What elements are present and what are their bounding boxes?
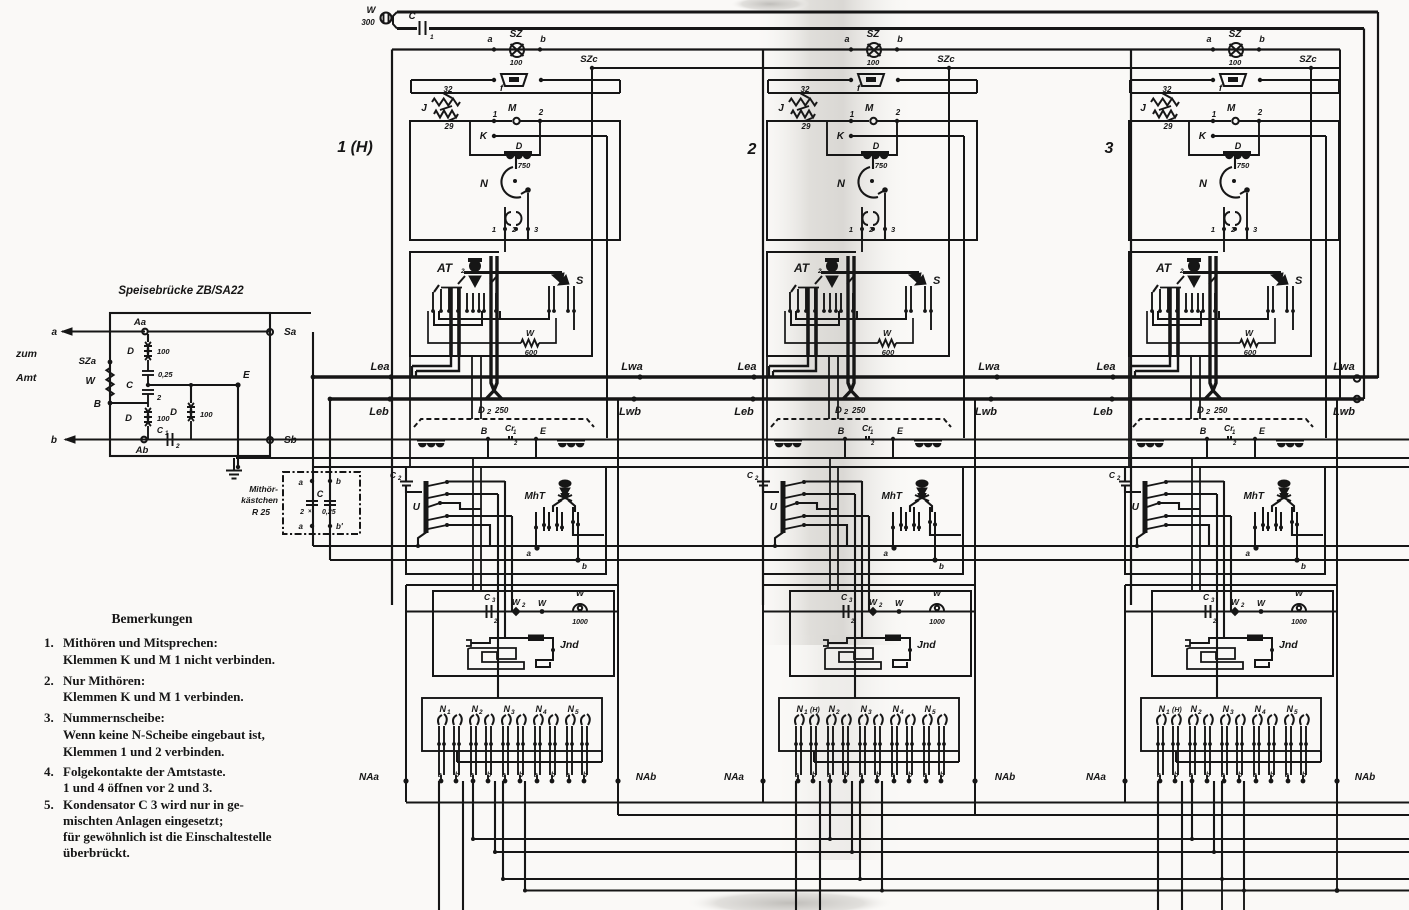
node on a bus (637, 374, 642, 379)
wire feed joint (393, 12, 397, 29)
svg-text:2: 2 (156, 393, 162, 402)
svg-text:Nummernscheibe:: Nummernscheibe: (63, 710, 165, 725)
wire NAa bus (406, 801, 1409, 803)
svg-text:Sb: Sb (284, 435, 297, 446)
wire B to C branch (110, 402, 148, 404)
svg-text:2: 2 (175, 443, 180, 450)
svg-text:NAb: NAb (995, 772, 1016, 783)
svg-text:W: W (86, 376, 97, 387)
wire module 3 b3 drop to edge (1243, 891, 1245, 910)
svg-text:kästchen: kästchen (241, 495, 278, 505)
wire right wrap a (1377, 12, 1379, 378)
svg-text:300: 300 (361, 18, 375, 27)
retard coil D lower (145, 408, 148, 426)
svg-text:Kondensator C 3 wird nur in ge: Kondensator C 3 wird nur in ge- (63, 797, 244, 812)
lamp W 300 (381, 13, 392, 24)
wire b3 bus (525, 889, 1409, 891)
svg-text:D: D (170, 407, 177, 418)
wire earth bus (236, 457, 1409, 459)
wire C to E (148, 384, 238, 386)
svg-text:Wenn keine N-Scheibe eingebaut: Wenn keine N-Scheibe eingebaut ist, (63, 727, 265, 742)
wire top feed b left (397, 27, 417, 30)
node C (146, 383, 150, 387)
capacitor C1 (419, 21, 421, 35)
wire Aa to Sa (148, 330, 270, 332)
svg-text:mischten Anlagen eingesetzt;: mischten Anlagen eingesetzt; (63, 813, 223, 828)
wire a trunk bus (313, 375, 1378, 378)
svg-text:2: 2 (747, 141, 757, 158)
wire listen bus a (313, 545, 1409, 547)
terminal a with arrow (62, 331, 145, 333)
wire box top extension (270, 312, 311, 314)
node on b bus (1109, 396, 1114, 401)
svg-text:Folgekontakte der Amtstaste.: Folgekontakte der Amtstaste. (63, 764, 226, 779)
svg-text:b': b' (336, 522, 344, 531)
svg-text:Klemmen K und M 1 nicht verbin: Klemmen K und M 1 nicht verbinden. (63, 652, 275, 667)
Speisebruecke box (110, 313, 270, 456)
wire top feed b right (429, 27, 1364, 30)
terminal b with arrow (65, 436, 75, 443)
svg-text:Leb: Leb (1093, 406, 1113, 418)
wire module 3 a3 drop to edge (1221, 879, 1223, 910)
svg-text:D: D (125, 413, 132, 424)
svg-text:a: a (299, 478, 304, 487)
svg-text:zum: zum (15, 348, 37, 360)
svg-text:Lea: Lea (738, 361, 757, 373)
node SZa (108, 360, 113, 365)
wire SZ bus wrap down (1339, 50, 1341, 400)
terminal Lwb module 3 (1354, 396, 1360, 402)
svg-text:1 und 4 öffnen vor 2 und 3.: 1 und 4 öffnen vor 2 und 3. (63, 780, 212, 795)
terminal Sb (267, 437, 273, 443)
svg-text:0,25: 0,25 (322, 509, 336, 516)
svg-text:NAa: NAa (359, 772, 379, 783)
svg-text:100: 100 (200, 410, 213, 419)
svg-text:Speisebrücke ZB/SA22: Speisebrücke ZB/SA22 (118, 285, 244, 297)
svg-text:1 (H): 1 (H) (337, 139, 373, 156)
wire module 1 left edge (391, 50, 393, 606)
svg-text:Klemmen 1 und 2 verbinden.: Klemmen 1 und 2 verbinden. (63, 744, 224, 759)
svg-text:Mithören und Mitsprechen:: Mithören und Mitsprechen: (63, 635, 218, 650)
svg-text:Sa: Sa (284, 327, 297, 338)
wire E down to bus (237, 385, 239, 467)
wire b trunk bus (330, 397, 1364, 400)
wire common bus 2 (313, 466, 1409, 468)
module 2 subscriber circuit (747, 29, 978, 910)
wire transformer common bus (65, 438, 1409, 440)
svg-text:100: 100 (157, 347, 170, 356)
junction NAb module 3 (1335, 888, 1340, 893)
svg-text:D: D (127, 346, 134, 357)
wire listen bus b (330, 559, 1409, 561)
svg-text:C: C (157, 425, 164, 435)
svg-text:NAa: NAa (1086, 772, 1106, 783)
Mithoerkaestchen dashed box (283, 472, 360, 534)
wire top feed a (397, 11, 1378, 14)
svg-text:Amt: Amt (15, 372, 37, 384)
wire SZ bus (392, 48, 1340, 50)
capacitor 0,25 (142, 370, 154, 372)
node on a bus (388, 374, 393, 379)
svg-text:Lwb: Lwb (975, 406, 997, 418)
wire a3 bus (503, 878, 1409, 880)
svg-text:2: 2 (299, 509, 304, 516)
svg-text:(H): (H) (810, 707, 820, 714)
svg-text:100: 100 (157, 414, 170, 423)
module 1 subscriber circuit (390, 29, 621, 910)
svg-text:NAa: NAa (724, 772, 744, 783)
svg-text:Lwa: Lwa (621, 361, 642, 373)
svg-text:Bemerkungen: Bemerkungen (112, 611, 193, 626)
svg-text:2.: 2. (44, 673, 54, 688)
node Ab (141, 437, 147, 443)
node B (108, 401, 113, 406)
node on b bus (750, 396, 755, 401)
svg-text:Lwb: Lwb (619, 406, 641, 418)
svg-text:Nur Mithören:: Nur Mithören: (63, 673, 145, 688)
wire b2 bus (495, 851, 1409, 853)
node on a bus (751, 374, 756, 379)
svg-text:Leb: Leb (369, 406, 389, 418)
svg-text:C: C (317, 489, 324, 499)
wire Aa down (147, 334, 149, 342)
node on b bus (387, 396, 392, 401)
resistor W (107, 368, 114, 396)
wire module 3 NAb extension (1336, 815, 1338, 891)
svg-text:E: E (243, 370, 250, 381)
svg-text:überbrückt.: überbrückt. (63, 845, 130, 860)
svg-text:Leb: Leb (734, 406, 754, 418)
svg-text:Lwa: Lwa (1333, 361, 1354, 373)
svg-text:Mithör-: Mithör- (249, 484, 278, 494)
svg-text:SZa: SZa (79, 356, 96, 367)
svg-text:5.: 5. (44, 797, 54, 812)
svg-text:Lea: Lea (371, 361, 390, 373)
svg-text:a: a (299, 522, 304, 531)
ground symbol (233, 458, 235, 470)
retard coil D right (188, 403, 191, 421)
terminal Lwa module 3 (1354, 375, 1360, 381)
svg-text:1: 1 (430, 34, 434, 41)
wire branch D right (190, 385, 192, 403)
wire module 2 left edge (762, 50, 764, 606)
svg-text:b: b (51, 435, 57, 446)
svg-text:×: × (308, 509, 312, 515)
node on a bus (994, 374, 999, 379)
svg-text:B: B (94, 399, 101, 410)
svg-text:a: a (51, 327, 57, 338)
junction riser b (328, 397, 333, 402)
module 3 subscriber circuit (1109, 29, 1340, 910)
node Aa (142, 329, 148, 335)
svg-text:W: W (367, 5, 377, 16)
wire right wrap b (1363, 29, 1365, 400)
svg-text:Lwa: Lwa (978, 361, 999, 373)
junction riser a (311, 375, 316, 380)
wire riser from Sb (329, 399, 331, 560)
svg-text:4.: 4. (44, 764, 54, 779)
svg-text:Lea: Lea (1097, 361, 1116, 373)
wire NAb bus (618, 814, 1409, 816)
svg-text:1.: 1. (44, 635, 54, 650)
capacitor C pair (306, 500, 318, 502)
svg-text:Ab: Ab (135, 445, 149, 456)
capacitor 2 (142, 389, 154, 391)
terminal Sa (267, 329, 273, 335)
svg-text:R 25: R 25 (252, 507, 270, 517)
svg-text:0,25: 0,25 (158, 370, 173, 379)
svg-text:Aa: Aa (133, 317, 146, 328)
capacitor C1 lower (167, 433, 169, 446)
svg-text:C: C (409, 11, 416, 22)
svg-text:3: 3 (1105, 140, 1114, 157)
svg-text:(H): (H) (1172, 707, 1182, 714)
wire riser from Sa (312, 332, 314, 546)
svg-text:NAb: NAb (636, 772, 657, 783)
node on b bus (631, 396, 636, 401)
node E (235, 382, 240, 387)
svg-text:NAb: NAb (1355, 772, 1376, 783)
retard coil D upper (145, 342, 148, 360)
svg-text:3.: 3. (44, 710, 54, 725)
svg-text:für gewöhnlich ist die Einscha: für gewöhnlich ist die Einschaltestelle (63, 829, 272, 844)
wire SZc bus (592, 67, 1340, 69)
node on a bus (1110, 374, 1115, 379)
wire a2 bus (473, 838, 1409, 840)
svg-text:b: b (336, 477, 341, 486)
svg-text:C: C (126, 380, 133, 391)
node on b bus (988, 396, 993, 401)
svg-text:Klemmen K und M 1 verbinden.: Klemmen K und M 1 verbinden. (63, 689, 244, 704)
wire module 3 left edge (1130, 50, 1132, 606)
